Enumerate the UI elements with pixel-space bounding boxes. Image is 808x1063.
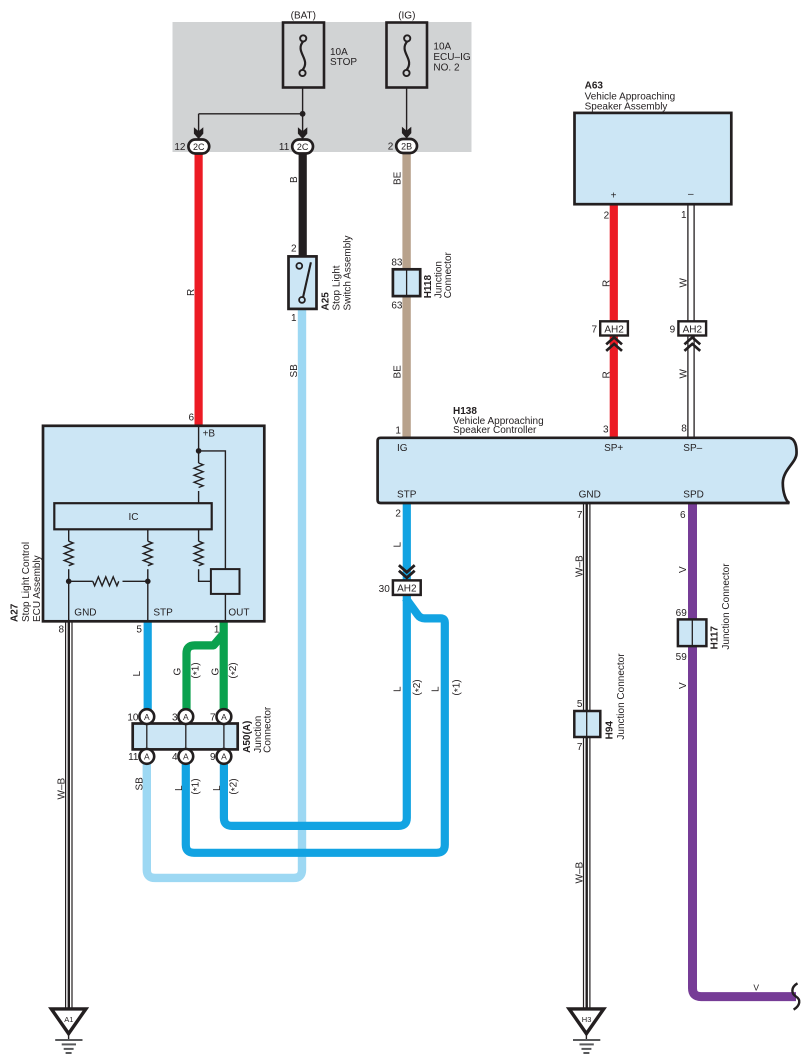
speaker assembly A63 box — [575, 113, 732, 204]
junction connector H94 — [574, 711, 600, 737]
THIN-LINES-LAYER — [199, 76, 407, 141]
svg-text:2B: 2B — [401, 141, 412, 151]
resistor R-left — [64, 541, 73, 566]
wire L from A27 STP to A50 pin 10 — [144, 621, 152, 709]
svg-text:A25: A25 — [320, 292, 331, 311]
svg-text:SB: SB — [289, 364, 300, 378]
svg-text:STP: STP — [153, 608, 173, 619]
svg-text:L: L — [393, 686, 404, 692]
svg-text:1: 1 — [291, 313, 297, 324]
svg-text:A1: A1 — [64, 1015, 73, 1024]
svg-text:12: 12 — [174, 142, 186, 153]
wire middle resistor to STP pin — [147, 569, 149, 620]
wire W from A63 - to H138 SP- — [687, 204, 689, 438]
wire R from A63 + to H138 SP+ — [610, 204, 618, 438]
svg-text:Stop Light: Stop Light — [331, 265, 342, 310]
svg-text:(*1): (*1) — [190, 778, 203, 794]
connector AH2 pin 7 (red) — [600, 321, 628, 351]
svg-text:–: – — [688, 189, 694, 200]
svg-text:8: 8 — [681, 424, 687, 435]
junction connector H118 — [393, 269, 420, 296]
svg-text:Switch Assembly: Switch Assembly — [342, 235, 353, 310]
svg-text:7: 7 — [577, 510, 583, 521]
svg-text:30: 30 — [379, 584, 391, 595]
svg-text:H3: H3 — [582, 1015, 592, 1024]
connector arrow into 2C-11 — [298, 127, 307, 139]
wire IC to right resistor — [198, 529, 200, 541]
svg-text:1: 1 — [681, 210, 687, 221]
terminal circle A bottom-3 — [217, 749, 232, 764]
svg-text:59: 59 — [676, 652, 688, 663]
svg-text:9: 9 — [670, 324, 676, 335]
svg-text:GND: GND — [579, 489, 601, 500]
wire branch +B to transistor — [199, 451, 226, 570]
node dot mid — [145, 579, 151, 585]
svg-text:A: A — [183, 712, 189, 722]
wire B from 2C-11 to stop light switch — [299, 153, 307, 258]
svg-text:2: 2 — [291, 244, 297, 255]
svg-text:W–B: W–B — [575, 862, 586, 884]
svg-text:OUT: OUT — [228, 608, 249, 619]
svg-text:STP: STP — [397, 489, 417, 500]
svg-text:4: 4 — [172, 752, 178, 763]
svg-text:A50(A): A50(A) — [242, 721, 253, 753]
terminal circle A bottom-2 — [178, 749, 193, 764]
svg-text:6: 6 — [188, 413, 194, 424]
svg-text:SP–: SP– — [683, 443, 702, 454]
svg-text:GND: GND — [74, 608, 96, 619]
svg-text:B: B — [289, 176, 300, 183]
svg-text:H117: H117 — [709, 626, 720, 650]
ground A1 — [51, 1009, 86, 1053]
svg-text:69: 69 — [676, 608, 688, 619]
svg-text:3: 3 — [172, 712, 178, 723]
fuse BAT 10A STOP — [283, 23, 324, 88]
svg-text:(IG): (IG) — [398, 10, 415, 21]
wire horizontal resistor right lead — [123, 580, 148, 582]
wire W-B from A27 GND to A1 ground — [65, 621, 67, 1008]
svg-text:2C: 2C — [297, 142, 309, 152]
wire W-B from H138 GND to H3 ground — [583, 502, 585, 1008]
terminal circle A top-1 — [139, 709, 154, 724]
WIRES-LAYER — [66, 153, 796, 1009]
svg-text:G: G — [211, 668, 222, 676]
wire G(*2) from A27 OUT to A50 pin 7 — [220, 621, 228, 709]
svg-text:R: R — [186, 289, 197, 296]
svg-text:10: 10 — [127, 712, 139, 723]
svg-text:+: + — [611, 191, 617, 202]
connector arrow into 2B-2 — [402, 127, 411, 139]
svg-text:H118: H118 — [423, 275, 434, 299]
wire break squiggle at V wire — [792, 983, 799, 1009]
svg-text:5: 5 — [577, 699, 583, 710]
wire R from 2C-12 to A27 +B — [195, 153, 203, 427]
svg-text:9: 9 — [210, 752, 216, 763]
wire SB from switch to A50(A) pin 11 — [147, 308, 302, 878]
connector AH2 pin 9 (white) — [678, 321, 706, 351]
ground H3 — [569, 1009, 604, 1053]
svg-text:BE: BE — [393, 171, 404, 185]
svg-text:L: L — [132, 671, 143, 677]
wire left resistor to GND pin — [68, 569, 70, 620]
svg-text:Connector: Connector — [263, 706, 274, 753]
svg-text:Speaker Controller: Speaker Controller — [453, 425, 537, 436]
transistor box — [211, 569, 240, 594]
svg-text:R: R — [601, 280, 612, 287]
connector arrow into 2C-12 — [194, 127, 203, 139]
svg-text:7: 7 — [591, 324, 597, 335]
svg-text:2: 2 — [388, 141, 394, 152]
svg-text:(*1): (*1) — [451, 679, 464, 695]
terminal circle A top-2 — [178, 709, 193, 724]
fuse IG 10A ECU-IG NO.2 — [387, 23, 428, 88]
svg-text:7: 7 — [577, 742, 583, 753]
wire fuse BAT to junction and 2C ovals — [302, 76, 304, 141]
wire fuse IG to 2B oval — [406, 76, 408, 141]
stop light switch A25 — [289, 256, 317, 309]
svg-text:1: 1 — [395, 426, 401, 437]
svg-text:R: R — [601, 371, 612, 378]
power source gray block — [173, 22, 472, 152]
svg-text:V: V — [678, 682, 689, 689]
wire right resistor to transistor — [199, 569, 211, 581]
svg-text:(*2): (*2) — [228, 662, 241, 678]
svg-text:L: L — [393, 542, 404, 548]
wire L(*1) branch to A50 pin 4 — [186, 598, 445, 853]
wire horizontal resistor left lead — [69, 580, 93, 582]
svg-text:SP+: SP+ — [604, 443, 623, 454]
svg-text:Connector: Connector — [443, 251, 454, 298]
svg-text:63: 63 — [391, 301, 403, 312]
svg-text:IG: IG — [397, 443, 408, 454]
svg-text:NO. 2: NO. 2 — [433, 62, 460, 73]
svg-text:83: 83 — [391, 258, 403, 269]
svg-text:(*2): (*2) — [228, 778, 241, 794]
svg-text:+B: +B — [203, 429, 216, 440]
wire BE from 2B-2 to H138 IG — [402, 153, 410, 439]
resistor R-horizontal — [93, 577, 119, 586]
svg-text:H94: H94 — [605, 721, 616, 740]
oval terminal 2C (pin 11) — [292, 140, 313, 154]
wire +B internal — [198, 426, 200, 463]
svg-text:W–B: W–B — [56, 778, 67, 800]
junction connector H117 — [678, 619, 707, 646]
svg-text:V: V — [753, 983, 759, 993]
IC box — [54, 503, 211, 529]
svg-text:11: 11 — [279, 142, 290, 153]
terminal circle A top-3 — [217, 709, 232, 724]
resistor R-right — [194, 541, 203, 566]
svg-text:W: W — [678, 369, 689, 379]
wire IC to middle resistor — [147, 529, 149, 541]
wire to IC — [198, 491, 200, 504]
svg-text:A: A — [183, 752, 189, 762]
svg-text:Speaker Assembly: Speaker Assembly — [585, 101, 668, 112]
svg-text:L: L — [174, 785, 185, 791]
svg-text:BE: BE — [393, 365, 404, 379]
wire V from H138 SPD down and right — [693, 502, 797, 997]
svg-text:Junction Connector: Junction Connector — [616, 653, 627, 740]
svg-text:(*2): (*2) — [412, 679, 425, 695]
svg-text:10A: 10A — [433, 41, 451, 52]
svg-text:1: 1 — [214, 624, 220, 635]
svg-text:AH2: AH2 — [604, 324, 624, 335]
svg-text:A: A — [221, 712, 227, 722]
svg-text:G: G — [173, 668, 184, 676]
svg-text:Stop Light Control: Stop Light Control — [21, 542, 32, 622]
svg-text:A: A — [144, 752, 150, 762]
oval terminal 2C (pin 12) — [188, 140, 209, 154]
svg-text:A: A — [144, 712, 150, 722]
svg-text:AH2: AH2 — [397, 584, 417, 595]
svg-text:IC: IC — [129, 512, 139, 523]
svg-text:SPD: SPD — [683, 489, 704, 500]
node dot +B — [196, 448, 202, 454]
svg-text:W: W — [678, 278, 689, 288]
svg-text:8: 8 — [58, 624, 64, 635]
svg-text:W–B: W–B — [575, 555, 586, 577]
svg-text:2: 2 — [604, 210, 610, 221]
terminal circle A bottom-1 — [139, 749, 154, 764]
node junction dot BAT line — [300, 111, 306, 117]
resistor R-top — [194, 463, 203, 488]
svg-text:(*1): (*1) — [190, 662, 203, 678]
svg-text:A: A — [221, 752, 227, 762]
ECU A27 box — [43, 426, 264, 622]
svg-text:2C: 2C — [193, 142, 205, 152]
resistor R-mid — [143, 541, 152, 566]
svg-text:STOP: STOP — [330, 57, 357, 68]
oval terminal 2B (pin 2) — [396, 139, 417, 153]
svg-text:Junction Connector: Junction Connector — [721, 563, 732, 650]
svg-text:ECU Assembly: ECU Assembly — [32, 555, 43, 622]
wire L from H138 STP through AH2-30, becomes L(*2) to A50 pin 9 — [224, 502, 407, 826]
svg-text:(BAT): (BAT) — [291, 10, 316, 21]
speaker controller H138 box — [378, 438, 797, 503]
svg-text:7: 7 — [210, 712, 216, 723]
svg-text:V: V — [678, 566, 689, 573]
svg-text:A63: A63 — [585, 80, 604, 91]
wire transistor to OUT pin — [224, 594, 226, 621]
svg-text:ECU–IG: ECU–IG — [433, 52, 470, 63]
connector AH2 pin 30 (blue) — [393, 565, 421, 595]
svg-text:6: 6 — [680, 510, 686, 521]
svg-text:2: 2 — [395, 508, 401, 519]
node dot left — [66, 579, 72, 585]
svg-text:L: L — [431, 686, 442, 692]
svg-text:AH2: AH2 — [683, 324, 703, 335]
svg-text:SB: SB — [135, 777, 146, 791]
svg-text:A27: A27 — [9, 603, 20, 622]
wire IC to left resistor — [68, 529, 70, 541]
svg-text:5: 5 — [136, 624, 142, 635]
svg-text:11: 11 — [128, 752, 139, 763]
wire G(*1) branch to A50 pin 3 — [187, 634, 224, 710]
svg-text:L: L — [212, 785, 223, 791]
svg-text:3: 3 — [603, 424, 609, 435]
junction connector A50(A) — [133, 709, 238, 764]
